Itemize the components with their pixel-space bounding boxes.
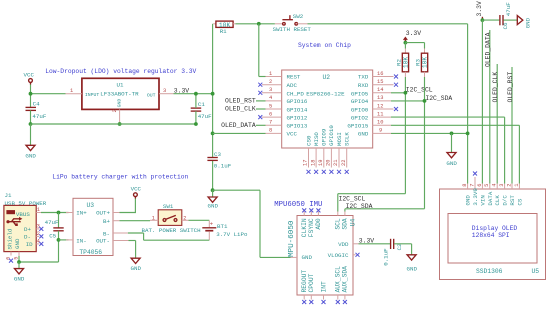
svg-text:GPIO16: GPIO16 (287, 98, 308, 105)
svg-text:CLK: CLK (494, 195, 501, 206)
svg-text:GPIO4: GPIO4 (351, 98, 369, 105)
pin U4 VLOGIC no-connect (353, 253, 360, 257)
svg-text:AUX_SDA: AUX_SDA (342, 266, 349, 293)
wire C2 to GND (394, 244, 411, 255)
svg-text:GND: GND (14, 276, 25, 283)
svg-text:GPIO5: GPIO5 (351, 90, 369, 97)
wire OUT- to GND (128, 241, 135, 259)
wire SW2 to GND net (right) (308, 24, 468, 134)
svg-text:TXD: TXD (358, 74, 369, 81)
pin 5 J1 GND (13, 252, 19, 260)
svg-text:OLED_CLK: OLED_CLK (492, 72, 499, 103)
svg-text:22: 22 (341, 160, 347, 166)
svg-text:GPIO15: GPIO15 (347, 123, 368, 130)
wire to U3 IN- (59, 239, 69, 241)
svg-text:MPU-6050: MPU-6050 (288, 220, 296, 257)
svg-text:BAT. POWER SWITCH: BAT. POWER SWITCH (142, 227, 202, 234)
resistor R1 10K (213, 21, 235, 35)
pin 6 U5 VIN (477, 184, 487, 206)
op-amp U1 regulator LF33ABOT-TR (82, 78, 159, 109)
svg-text:CS: CS (516, 198, 523, 205)
svg-text:FSYNC: FSYNC (308, 218, 315, 237)
svg-text:16: 16 (377, 71, 383, 77)
svg-text:4: 4 (269, 95, 272, 101)
power VCC (top-left) (24, 72, 35, 85)
svg-text:B-: B- (103, 230, 110, 237)
ground GND (below J1) (14, 262, 25, 283)
svg-text:MISO: MISO (313, 132, 320, 146)
svg-text:U2: U2 (323, 74, 331, 81)
svg-text:GPIO10: GPIO10 (328, 125, 335, 146)
svg-text:ESP8266-12E: ESP8266-12E (306, 90, 345, 97)
svg-text:5: 5 (13, 257, 19, 260)
svg-text:C3: C3 (214, 151, 221, 158)
svg-text:12: 12 (377, 103, 383, 109)
junction 3.3V / C6 / OLED VIN (481, 18, 485, 22)
pin 5 U2 GPIO14 / label OLED_CLK (225, 103, 282, 112)
wire VCC to U1 input (31, 85, 66, 108)
svg-text:3: 3 (499, 184, 505, 187)
svg-text:47uF: 47uF (45, 219, 59, 226)
svg-text:10: 10 (377, 120, 383, 126)
svg-text:D-: D- (24, 234, 31, 241)
pins U4 SCL SDA stubs (338, 212, 345, 216)
svg-text:TP4056: TP4056 (79, 249, 102, 256)
svg-text:OLED_RST: OLED_RST (225, 98, 256, 105)
resistor R2 10K (395, 49, 409, 78)
IC U4 MPU-6050 (288, 216, 357, 296)
pin U4 GND stub (291, 256, 298, 258)
svg-text:J1: J1 (5, 192, 12, 199)
svg-text:6: 6 (477, 184, 483, 187)
svg-text:GND: GND (117, 99, 123, 108)
svg-text:47uF: 47uF (505, 2, 512, 16)
svg-text:19: 19 (318, 160, 324, 166)
power VCC (U3 OUT+) (131, 185, 142, 198)
pin 2 U2 ADC no-connect (258, 79, 281, 87)
svg-text:SDA: SDA (342, 218, 349, 230)
wire C4 to GND rail (30, 110, 32, 124)
svg-text:RST: RST (509, 195, 516, 206)
svg-text:CS0: CS0 (305, 135, 312, 146)
svg-text:3.3V: 3.3V (359, 237, 375, 244)
svg-text:D/C: D/C (502, 195, 509, 206)
svg-text:10K: 10K (403, 57, 410, 69)
svg-text:U5: U5 (532, 268, 540, 275)
power 3.3V (top right, rotated) (476, 1, 483, 20)
svg-text:15: 15 (377, 79, 383, 85)
svg-text:1: 1 (152, 216, 155, 222)
svg-text:Low-Dropout (LDO) voltage regu: Low-Dropout (LDO) voltage regulator 3.3V (45, 68, 196, 75)
pin 2 U5 RST (506, 184, 516, 206)
svg-text:0.1uF: 0.1uF (383, 248, 390, 266)
capacitor C5 47uF (45, 213, 64, 240)
svg-text:7: 7 (469, 184, 475, 187)
svg-text:GND: GND (407, 266, 418, 273)
svg-text:C1: C1 (198, 101, 205, 108)
svg-text:7: 7 (269, 120, 272, 126)
pins U4 bottom no-connect (302, 295, 347, 304)
wire OUT+ to VCC (120, 199, 136, 213)
svg-text:OUT: OUT (147, 92, 156, 98)
wire VBUS to U3 IN+ (41, 212, 69, 214)
svg-text:10K: 10K (422, 57, 429, 69)
wire reset node down to U2 pin1 (259, 24, 266, 77)
pin 9 U2 GND (373, 128, 391, 134)
svg-text:GND: GND (465, 195, 472, 206)
svg-text:3.3V0: 3.3V0 (472, 188, 479, 206)
svg-text:GPIO2: GPIO2 (351, 114, 369, 121)
svg-text:ID: ID (26, 241, 33, 248)
svg-text:INPUT: INPUT (85, 92, 100, 98)
junction C4 bottom (29, 122, 33, 126)
svg-text:128x64 SPI: 128x64 SPI (472, 232, 510, 239)
svg-text:6: 6 (6, 257, 12, 260)
svg-text:DATA: DATA (487, 191, 494, 205)
svg-text:B+: B+ (103, 218, 110, 225)
junction I2C_SCL at GPIO5 (404, 91, 408, 95)
svg-text:8: 8 (462, 184, 468, 187)
svg-text:I2C_SDA: I2C_SDA (425, 95, 452, 102)
svg-text:3: 3 (269, 87, 272, 93)
svg-text:21: 21 (333, 160, 339, 166)
junction C5/IN- (57, 238, 61, 242)
ground GND (top right, rotated) (517, 16, 531, 29)
svg-text:U3: U3 (87, 202, 95, 209)
capacitor C4 47uF (26, 100, 47, 120)
pin 11 U2 GPIO2 (373, 111, 391, 117)
svg-text:System on Chip: System on Chip (298, 42, 351, 49)
wire GPIO2 to OLED D/C (391, 117, 505, 183)
svg-text:14: 14 (377, 87, 383, 93)
svg-text:SSD1306: SSD1306 (476, 268, 503, 275)
pin 3 U5 D/C (499, 184, 509, 206)
pin stubs U3 (66, 213, 128, 241)
svg-text:C6: C6 (502, 22, 509, 29)
wire B- to battery negative (128, 233, 209, 240)
svg-text:9: 9 (379, 128, 382, 134)
svg-text:GPIO0: GPIO0 (351, 106, 369, 113)
pin 4 U5 CLK (492, 184, 502, 206)
svg-text:3.3V: 3.3V (476, 1, 483, 17)
junction C1 top (194, 92, 198, 96)
svg-text:11: 11 (377, 111, 383, 117)
svg-text:C4: C4 (33, 100, 40, 107)
svg-text:I2C_SCL: I2C_SCL (339, 196, 366, 203)
wire OLED_RST vertical / label (507, 67, 514, 184)
pin 7 U2 GPIO13 / label OLED_DATA (221, 120, 282, 129)
svg-text:GND: GND (525, 17, 532, 28)
svg-text:VCC: VCC (287, 131, 298, 138)
power 3.3V (pullups) (404, 30, 422, 42)
svg-text:5: 5 (269, 103, 272, 109)
junction GND / SW2 (466, 132, 470, 136)
junction at VCC/C4 (29, 92, 33, 96)
pin 3 U2 CH_PD no-connect (258, 87, 281, 95)
svg-text:OUT+: OUT+ (96, 210, 110, 217)
pin 8 U2 VCC (266, 128, 282, 134)
wire GND rail under U1 (31, 123, 196, 125)
ground GND (near OLED) (446, 133, 457, 167)
svg-text:GPIO9: GPIO9 (321, 128, 328, 146)
svg-text:VCC: VCC (131, 185, 142, 192)
IC U3 TP4056 (73, 198, 113, 256)
svg-text:VLOGIC: VLOGIC (328, 252, 349, 259)
junction I2C_SDA at GPIO4 (423, 99, 427, 103)
svg-text:IN-: IN- (76, 238, 86, 245)
junction 3.3V pullup node (404, 41, 408, 45)
svg-text:VCC: VCC (24, 72, 35, 79)
svg-text:13: 13 (377, 95, 383, 101)
pin 10 U2 GPIO15 (373, 120, 391, 126)
junction reset node (257, 22, 261, 26)
junction U1 pin2 on GND rail (118, 122, 122, 126)
svg-text:I2C_SDA: I2C_SDA (346, 203, 373, 210)
wire 3.3V to R2/R3 tops (405, 43, 424, 49)
svg-text:ADC: ADC (287, 82, 298, 89)
svg-text:GND: GND (208, 203, 219, 210)
svg-text:+: + (210, 220, 214, 227)
connector/display U5 SSD1306 OLED (440, 189, 546, 280)
wire J1 GND down/right (19, 240, 59, 262)
svg-text:SCL: SCL (335, 218, 342, 230)
wire I2C_SCL net (R2 to GPIO5 to MPU SCL) (338, 77, 406, 212)
svg-text:IN+: IN+ (76, 210, 87, 217)
pin 2 U1 (112, 109, 120, 124)
svg-text:MOSI: MOSI (336, 132, 343, 146)
svg-text:SCLK: SCLK (344, 132, 351, 146)
pin 1 U2 REST (266, 71, 282, 77)
pin 7 U5 3.3V0 no-connect (469, 172, 479, 206)
ground GND (U3 OUT-) (131, 258, 142, 272)
svg-text:SWITH RESET: SWITH RESET (273, 26, 312, 33)
pin 6 U2 GPIO12 no-connect (258, 111, 281, 119)
junction rail/U2 VCC (211, 132, 215, 136)
svg-text:C5: C5 (49, 233, 56, 240)
wire R1 to SW2 (236, 23, 275, 25)
ground GND (at C2) (407, 255, 418, 273)
svg-text:GPIO14: GPIO14 (287, 106, 308, 113)
svg-text:GPIO13: GPIO13 (287, 123, 308, 130)
svg-text:REGOUT: REGOUT (301, 270, 308, 293)
svg-text:AUX_SCL: AUX_SCL (335, 266, 342, 293)
svg-text:BT1: BT1 (217, 223, 228, 230)
resistor R3 10K (414, 49, 428, 78)
svg-text:MPU6050 IMU: MPU6050 IMU (274, 201, 322, 209)
svg-text:VIN: VIN (479, 195, 486, 206)
svg-text:GND: GND (131, 265, 142, 272)
pin 1 U1 (66, 88, 82, 94)
svg-text:4: 4 (492, 184, 498, 187)
junction C1 bottom (194, 122, 198, 126)
wire MPU GND net (213, 190, 291, 257)
svg-text:3: 3 (163, 88, 166, 94)
pin 3 U1 (159, 88, 174, 94)
svg-text:CLKIN: CLKIN (301, 218, 308, 237)
junction C3 bottom (211, 188, 215, 192)
svg-text:17: 17 (303, 160, 309, 166)
svg-text:LiPo battery charger with prot: LiPo battery charger with protection (52, 174, 188, 181)
wire 3.3V rail vertical x212.6 (212, 24, 214, 190)
wire rail to U2 VCC pin8 (213, 132, 266, 134)
pin 1 U5 CS (514, 184, 524, 206)
pin 5 U5 DATA (484, 184, 494, 206)
svg-text:OLED_DATA: OLED_DATA (485, 32, 492, 67)
svg-text:2: 2 (506, 184, 512, 187)
svg-text:5: 5 (484, 184, 490, 187)
pin 15 U2 RXD no-connect (373, 79, 398, 87)
svg-text:1: 1 (514, 184, 520, 187)
wire 3.3V to C6 (482, 19, 499, 21)
pins 17-22 U2 bottom no-connect (303, 148, 349, 174)
wire OLED_DATA vertical / label (485, 30, 492, 184)
svg-text:8: 8 (269, 128, 272, 134)
junction GND drop (450, 132, 454, 136)
svg-text:1: 1 (269, 71, 272, 77)
svg-text:U1: U1 (117, 81, 124, 88)
ground GND (below C3) (208, 190, 219, 210)
svg-text:18: 18 (310, 160, 316, 166)
svg-text:OUT-: OUT- (96, 238, 110, 245)
wire I2C_SDA net (R3 to GPIO4 to MPU SDA) (345, 77, 425, 212)
wire OLED_CLK vertical / label (492, 64, 499, 184)
svg-text:2: 2 (269, 79, 272, 85)
svg-text:REST: REST (287, 74, 301, 81)
svg-text:INT: INT (320, 281, 327, 293)
capacitor C3 0.1uF (207, 151, 231, 170)
svg-text:0.1uF: 0.1uF (214, 163, 232, 170)
svg-text:GND: GND (302, 254, 313, 261)
svg-text:4: 4 (37, 239, 40, 245)
svg-text:GPIO12: GPIO12 (287, 114, 308, 121)
svg-text:SW1: SW1 (163, 203, 174, 210)
wire OLED VIN vertical (481, 20, 483, 183)
svg-text:U4: U4 (350, 219, 357, 227)
pin 16 U2 TXD no-connect (373, 71, 398, 79)
svg-text:R1: R1 (220, 28, 227, 35)
svg-text:GND: GND (446, 160, 457, 167)
capacitor C1 47uF (191, 101, 212, 120)
pin 14 U2 GPIO5 (373, 87, 391, 93)
svg-text:20: 20 (326, 160, 332, 166)
svg-text:GND: GND (14, 238, 21, 249)
wire U1 out to rail (174, 93, 213, 95)
svg-text:47uF: 47uF (32, 113, 46, 120)
svg-text:GND: GND (25, 152, 36, 159)
wire GND net U2 pin9 (391, 133, 468, 183)
svg-text:I2C_SCL: I2C_SCL (406, 87, 433, 94)
pin 2 J1 D- no-connect (36, 231, 43, 238)
junction rail/LDO out (211, 92, 215, 96)
svg-text:6: 6 (269, 111, 272, 117)
wire C1 legs (195, 94, 197, 124)
svg-text:3.7V LiPo: 3.7V LiPo (216, 231, 248, 238)
svg-text:AD0: AD0 (315, 218, 322, 230)
IC U2 ESP8266-12E (282, 70, 373, 148)
ground GND (below C4) (25, 124, 36, 159)
svg-text:OLED_RST: OLED_RST (507, 72, 514, 103)
svg-text:GND: GND (358, 131, 369, 138)
svg-text:OLED_DATA: OLED_DATA (221, 122, 256, 129)
wire C6 to GND (504, 19, 518, 21)
pin 6 J1 Shield no-connect (6, 252, 13, 263)
svg-text:CH_PD: CH_PD (287, 90, 305, 97)
svg-text:LF33ABOT-TR: LF33ABOT-TR (100, 91, 139, 98)
pin 8 U5 GND (462, 184, 472, 206)
svg-text:R2: R2 (395, 59, 402, 66)
svg-text:SW2: SW2 (293, 13, 304, 20)
battery BT1 3.7V LiPo (189, 220, 249, 240)
svg-text:VBUS: VBUS (16, 211, 30, 218)
svg-text:3.3V: 3.3V (406, 30, 422, 37)
switch SW2 SWITH RESET (273, 13, 312, 33)
svg-text:VDD: VDD (338, 241, 349, 248)
svg-text:47uF: 47uF (198, 113, 212, 120)
connector J1 USB_5V_POWER (4, 192, 47, 252)
switch SW1 BAT POWER SWITCH (142, 203, 202, 234)
svg-text:D+: D+ (24, 226, 31, 233)
svg-text:R3: R3 (414, 59, 421, 66)
svg-text:2: 2 (112, 109, 118, 112)
pin 4 U2 GPIO16 / label OLED_RST (225, 95, 282, 104)
svg-text:CPOUT: CPOUT (308, 273, 315, 292)
svg-text:3: 3 (37, 224, 40, 230)
wire B+ to SW1 (120, 220, 151, 222)
capacitor C2 0.1uF (383, 239, 403, 266)
pin 1 J1 VBUS (36, 207, 41, 213)
svg-text:1: 1 (70, 88, 73, 94)
pin 12 U2 GPIO0 no-connect (373, 103, 398, 111)
pin 3 J1 D+ no-connect (36, 224, 43, 231)
svg-text:Shield: Shield (7, 229, 14, 250)
svg-text:OLED_CLK: OLED_CLK (225, 106, 256, 113)
wire GPIO15 to OLED CS (391, 125, 519, 183)
junction VBUS/C5 (57, 211, 61, 215)
pins U4 top no-connect CLKIN FSYNC AD0 (302, 208, 320, 215)
svg-text:2: 2 (37, 231, 40, 237)
capacitor C6 47uF (500, 2, 512, 30)
junction J1 GND (17, 260, 21, 264)
svg-text:RXD: RXD (358, 82, 369, 89)
pin 4 J1 ID no-connect (36, 239, 43, 246)
svg-text:1: 1 (37, 207, 40, 213)
pin U4 VDD stub / wire to C2 (353, 243, 390, 245)
pin 13 U2 GPIO4 (373, 95, 391, 101)
